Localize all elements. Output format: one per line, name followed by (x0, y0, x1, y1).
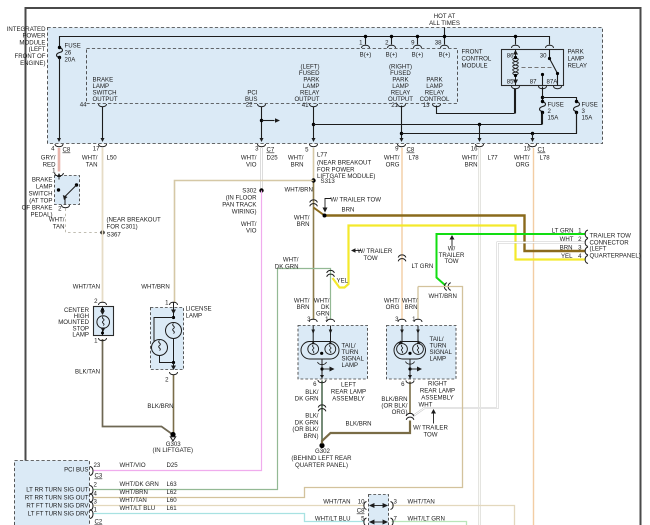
svg-text:L77: L77 (488, 155, 499, 162)
svg-text:WHT/BRN: WHT/BRN (120, 489, 148, 496)
wire WHT/BRN L62 right lamp pin 1 riser to module pin 4 (94, 287, 463, 498)
svg-text:BRN: BRN (291, 162, 304, 169)
connector TRAILER TOW pins 1-4 (585, 230, 588, 264)
svg-text:D25: D25 (167, 462, 179, 469)
svg-text:ORG: ORG (516, 162, 530, 169)
svg-text:LAMP: LAMP (430, 356, 447, 363)
ground G303 (170, 432, 175, 437)
svg-text:YEL: YEL (561, 253, 573, 260)
svg-text:QUARTERPANEL): QUARTERPANEL) (590, 252, 641, 259)
svg-text:3: 3 (94, 499, 98, 506)
relay switch contacts 30/87/87A (550, 50, 558, 86)
svg-text:PAN TRACK: PAN TRACK (222, 202, 256, 209)
label PARK LAMP RELAY CONTROL pin 13 (420, 77, 450, 104)
wire WHT/ORG L78 pin 9 C8 to right lamp pin 3, inline connector (401, 148, 403, 320)
svg-text:38: 38 (435, 40, 442, 47)
svg-text:WHT/TAN: WHT/TAN (120, 497, 147, 504)
svg-text:BRN: BRN (560, 245, 573, 252)
svg-text:WHT/TAN: WHT/TAN (73, 284, 100, 291)
svg-text:ENGINE): ENGINE) (20, 60, 45, 67)
wire BLK/TAN stop lamp pin 1 to ground G303 (103, 339, 173, 434)
labels wire colors GRY/RED WHT/TAN WHT/VIO WHT/BRN WHT/ORG (41, 155, 530, 169)
svg-text:FUSE: FUSE (65, 43, 81, 50)
wire LT GRN to trailer tow connector pin 1 (437, 234, 586, 286)
wire YEL to trailer tow connector pin 4 (333, 226, 586, 288)
labels RIGHT REAR LAMP ASSEMBLY TAIL/TURN SIGNAL LAMP (384, 298, 418, 324)
svg-text:2: 2 (94, 298, 98, 305)
svg-text:TAN: TAN (53, 224, 65, 231)
label BRAKE LAMP SWITCH (AT TOP OF BRAKE PEDAL) (22, 168, 65, 231)
svg-text:FOR C301): FOR C301) (107, 224, 138, 231)
svg-text:6: 6 (313, 381, 317, 388)
wire WHT trailer tow connector pin 2 to ground Y (413, 243, 586, 417)
svg-text:1: 1 (165, 300, 169, 307)
svg-text:1: 1 (52, 168, 56, 175)
svg-text:10: 10 (358, 499, 365, 506)
svg-text:LICENSE: LICENSE (186, 306, 212, 313)
svg-text:FRONT: FRONT (462, 49, 483, 56)
wire right fused park lamp relay output pin 21 to pin 9, junction (401, 106, 403, 141)
junction dots on B(+) bus (364, 35, 367, 38)
inline connector LT GRN to WHT/BRN (444, 283, 450, 291)
switch arm (75, 183, 78, 186)
svg-text:TOW: TOW (423, 432, 437, 439)
svg-text:WHT/DK GRN: WHT/DK GRN (120, 481, 159, 488)
module box with PCI BUS / turn signal outputs (15, 461, 90, 525)
svg-text:WIRING): WIRING) (232, 209, 257, 216)
wire WHT/TAN L50 pin 17 to stop lamp, splice S367 (102, 148, 104, 303)
svg-text:(IN FLOOR: (IN FLOOR (226, 195, 257, 202)
svg-text:C3: C3 (95, 473, 103, 480)
svg-text:RT FT TURN SIG DRV: RT FT TURN SIG DRV (26, 503, 89, 510)
wire GRY/RED pin 4 C8 to brake lamp switch (58, 148, 60, 172)
svg-text:BLK/BRN: BLK/BRN (346, 421, 372, 428)
W/ TRAILER TOW pointer at BRN junction (325, 199, 332, 210)
svg-text:OUTPUT: OUTPUT (93, 96, 118, 103)
relay bottom pin arcs (512, 86, 562, 89)
wire BLK/BRN right lamp pin 6 to ground G302, Y connector (409, 382, 411, 414)
svg-text:L63: L63 (167, 481, 178, 488)
inline connector on WHT/BRN below S313 (310, 200, 318, 206)
svg-text:86: 86 (507, 53, 514, 60)
wire WHT/BRN L77 pin 16 down (479, 148, 481, 525)
lamp LEFT REAR TAIL/TURN SIGNAL LAMP (298, 326, 368, 380)
label splice S302 (IN FLOOR PAN TRACK WIRING) (222, 188, 257, 235)
svg-text:WHT/: WHT/ (288, 155, 304, 162)
labels ground G302 (BEHIND LEFT REAR QUARTER PANEL) (292, 413, 318, 440)
svg-text:G302: G302 (315, 448, 331, 455)
svg-text:4: 4 (94, 491, 98, 498)
svg-text:15A: 15A (548, 115, 560, 122)
fuse FUSE 3 15A (574, 102, 580, 112)
svg-text:WHT/TAN: WHT/TAN (408, 499, 435, 506)
wire WHT/TAN L60 through connector C8 (94, 505, 365, 507)
wire brake lamp switch output pin 44 to pin 17 (102, 107, 104, 141)
relay PARK LAMP RELAY box (502, 50, 564, 86)
svg-text:WHT: WHT (419, 402, 433, 409)
ground G302 (319, 443, 324, 448)
svg-text:23: 23 (94, 462, 101, 469)
relay pin arrows (513, 50, 518, 55)
wire WHT/LT BLU L61 to connector C8 pin 5 (94, 514, 365, 522)
fuse FUSE 26 20A (57, 48, 63, 58)
svg-text:ORG: ORG (386, 304, 400, 311)
svg-text:2: 2 (94, 482, 98, 489)
svg-text:15A: 15A (582, 115, 594, 122)
svg-text:C7: C7 (267, 147, 275, 154)
svg-text:TAN: TAN (86, 162, 98, 169)
svg-text:W/ TRAILER: W/ TRAILER (413, 425, 448, 432)
svg-text:15: 15 (524, 146, 531, 153)
svg-text:16: 16 (471, 146, 478, 153)
svg-text:RT RR TURN SIG OUT: RT RR TURN SIG OUT (25, 495, 89, 502)
wire BRN to trailer tow connector pin 3 (325, 216, 586, 252)
wire WHT/BRN L77 pin 5, splice S313, to left lamp pin 3 (313, 148, 315, 181)
wire B(+) bus from fuse 26 to relay (60, 28, 550, 48)
wire WHT/ORG L78 pin 15 C1 down (533, 148, 535, 525)
svg-text:BLK/BRN: BLK/BRN (147, 403, 173, 410)
svg-text:WHT/: WHT/ (283, 257, 299, 264)
svg-text:B(+): B(+) (386, 52, 398, 59)
svg-text:WHT/VIO: WHT/VIO (120, 462, 146, 469)
svg-text:(NEAR BREAKOUT: (NEAR BREAKOUT (107, 217, 161, 224)
svg-text:DK GRN: DK GRN (275, 264, 299, 271)
svg-text:L77: L77 (317, 152, 328, 159)
svg-text:D25: D25 (267, 155, 279, 162)
svg-text:BRAKE: BRAKE (32, 177, 53, 184)
svg-text:GRY/: GRY/ (41, 155, 56, 162)
brake lamp switch box (55, 176, 80, 205)
svg-text:PCI BUS: PCI BUS (64, 467, 88, 474)
svg-text:LT GRN: LT GRN (412, 263, 434, 270)
svg-text:W/ TRAILER TOW: W/ TRAILER TOW (331, 197, 382, 204)
svg-text:HOT AT: HOT AT (434, 13, 456, 20)
svg-text:VIO: VIO (246, 162, 257, 169)
svg-text:1: 1 (94, 507, 98, 514)
wire WHT/BRN splice S313 branch to license lamp pin 1 (175, 181, 314, 303)
relay bottom wires (515, 89, 517, 114)
wire BLK/BRN license lamp pin 2 to ground G303 (173, 375, 175, 433)
svg-text:LT GRN: LT GRN (552, 228, 574, 235)
svg-text:87: 87 (530, 79, 537, 86)
wire left fused park lamp relay output pin 41 to pin 5, junction (313, 107, 315, 141)
label (LEFT) FUSED PARK LAMP RELAY OUTPUT pin 41 (294, 64, 320, 110)
svg-text:LT RR TURN SIG OUT: LT RR TURN SIG OUT (26, 487, 89, 494)
svg-text:WHT/: WHT/ (384, 155, 400, 162)
integrated power module outer box (48, 28, 603, 144)
svg-text:L60: L60 (167, 497, 178, 504)
svg-text:LAMP: LAMP (186, 313, 203, 320)
svg-text:WHT/LT GRN: WHT/LT GRN (408, 516, 445, 523)
svg-text:WHT/: WHT/ (514, 155, 530, 162)
pin connectors top of inner box (362, 45, 554, 48)
svg-text:44: 44 (80, 102, 87, 109)
svg-text:85: 85 (507, 79, 514, 86)
svg-text:(IN LIFTGATE): (IN LIFTGATE) (153, 447, 194, 454)
svg-text:L62: L62 (167, 489, 178, 496)
pin connectors 23/2/4/3/1 of bottom module (90, 467, 93, 519)
svg-text:2: 2 (165, 377, 169, 384)
wire WHT/TAN brake switch pin 2 to splice S367 (66, 209, 101, 233)
wire PCI bus pin 22 to pin 3, junction and arrow (261, 107, 263, 141)
svg-text:21: 21 (391, 102, 398, 109)
svg-text:WHT/LT BLU: WHT/LT BLU (120, 505, 156, 512)
wire WHT/VIO D25 splice S302 to pin 23 C3 (94, 191, 262, 471)
svg-text:LAMP: LAMP (36, 184, 53, 191)
wire fuse 3 output to pins 21/15, junction node (402, 114, 577, 134)
svg-text:26: 26 (65, 50, 72, 57)
svg-text:WHT: WHT (560, 236, 574, 243)
labels ground G303 (IN LIFTGATE) (153, 441, 194, 454)
svg-text:4: 4 (51, 146, 55, 153)
svg-text:BLK/TAN: BLK/TAN (75, 369, 100, 376)
labels bottom module PCI BUS / TURN SIG pins 23 C3 2 4 3 1 C2 (25, 467, 90, 518)
labels LEFT REAR LAMP ASSEMBLY TAIL/TURN SIGNAL LAMP (294, 298, 330, 324)
svg-text:WHT/: WHT/ (82, 155, 98, 162)
svg-text:87A: 87A (547, 79, 559, 86)
wire WHT/LT GRN from connector C8 pin 7 (392, 522, 467, 525)
wire fuse 2 output to pins 41/16, junction node (314, 114, 542, 125)
svg-text:WHT/LT BLU: WHT/LT BLU (315, 516, 351, 523)
svg-text:SWITCH: SWITCH (28, 191, 52, 198)
svg-text:QUARTER PANEL): QUARTER PANEL) (295, 462, 348, 469)
relay coil pins 86-85 (515, 50, 517, 86)
label HOT AT ALL TIMES (429, 13, 460, 27)
svg-text:TOW: TOW (444, 258, 458, 265)
svg-text:30: 30 (540, 53, 547, 60)
svg-text:ORG: ORG (386, 162, 400, 169)
svg-text:REAR LAMP: REAR LAMP (331, 389, 366, 396)
svg-text:S302: S302 (242, 188, 257, 195)
svg-text:41: 41 (302, 102, 309, 109)
svg-text:20A: 20A (65, 57, 77, 64)
svg-text:3: 3 (395, 316, 399, 323)
svg-text:LT FT TURN SIG DRV: LT FT TURN SIG DRV (28, 511, 90, 518)
svg-text:B(+): B(+) (439, 52, 451, 59)
svg-text:WHT/: WHT/ (462, 155, 478, 162)
inner module dashed box (87, 49, 458, 104)
svg-text:C8: C8 (357, 508, 365, 515)
svg-text:MODULE: MODULE (462, 63, 488, 70)
svg-text:WHT/TAN: WHT/TAN (323, 499, 350, 506)
svg-text:ALL TIMES: ALL TIMES (429, 20, 460, 27)
svg-text:YEL: YEL (337, 278, 349, 285)
svg-text:PARK: PARK (568, 49, 584, 56)
svg-text:(AT TOP: (AT TOP (29, 198, 52, 205)
svg-text:L61: L61 (167, 505, 178, 512)
wire WHT/DK GRN L63 pin 2 to left lamp pin 1 (94, 269, 331, 490)
svg-text:WHT/: WHT/ (241, 155, 257, 162)
svg-text:17: 17 (93, 146, 100, 153)
svg-text:ASSEMBLY: ASSEMBLY (421, 395, 453, 402)
svg-text:WHT/BRN: WHT/BRN (141, 284, 169, 291)
svg-text:CONTROL: CONTROL (462, 56, 492, 63)
svg-text:C1: C1 (538, 147, 546, 154)
svg-text:LAMP: LAMP (568, 56, 585, 63)
svg-text:BRN): BRN) (304, 433, 319, 440)
svg-text:TOW: TOW (364, 255, 378, 262)
svg-text:S367: S367 (107, 232, 122, 239)
svg-text:(BEHIND LEFT REAR: (BEHIND LEFT REAR (291, 455, 352, 462)
svg-text:BRN: BRN (465, 162, 478, 169)
wire park lamp relay control pin 13 to relay pin 85 (437, 89, 515, 114)
svg-text:WHT/: WHT/ (49, 217, 65, 224)
svg-text:BRN: BRN (297, 221, 310, 228)
svg-text:6: 6 (401, 381, 405, 388)
svg-text:RIGHT: RIGHT (428, 381, 447, 388)
svg-text:ORG): ORG) (392, 409, 408, 416)
svg-text:L78: L78 (540, 155, 551, 162)
svg-text:3: 3 (394, 499, 398, 506)
svg-text:B(+): B(+) (412, 52, 424, 59)
lamp CENTER HIGH MOUNTED STOP LAMP (94, 307, 114, 336)
svg-text:C8: C8 (407, 147, 415, 154)
svg-text:22: 22 (246, 102, 253, 109)
inline connector WHT/DK GRN riser with YEL tap (327, 270, 335, 276)
svg-text:BRN: BRN (342, 207, 355, 214)
svg-text:DK GRN: DK GRN (295, 396, 319, 403)
label (RIGHT) FUSED PARK LAMP RELAY OUTPUT pin 21 (388, 64, 413, 104)
svg-text:LAMP: LAMP (342, 362, 359, 369)
svg-text:REAR LAMP: REAR LAMP (420, 388, 455, 395)
label W/ TRAILER TOW at LT GRN with arrow (439, 246, 465, 266)
svg-text:1: 1 (94, 338, 98, 345)
svg-text:BRN: BRN (297, 304, 310, 311)
svg-text:13: 13 (423, 102, 430, 109)
labels TRAILER TOW CONNECTOR pins LT GRN 1 / WHT 2 / BRN 3 / YEL 4 (552, 228, 582, 261)
svg-text:B(+): B(+) (360, 52, 372, 59)
svg-text:OF BRAKE: OF BRAKE (22, 205, 53, 212)
wire BLK/DK GRN left lamp pin 6 to ground G302, inline connector (321, 381, 323, 444)
lamp RIGHT REAR TAIL/TURN SIGNAL LAMP (387, 326, 457, 380)
svg-text:S313: S313 (321, 178, 336, 185)
connector C8 pass-through (369, 495, 389, 525)
svg-text:L50: L50 (107, 155, 118, 162)
pin half circle connectors at y=143 (bottom edge of outer box) (55, 144, 537, 147)
label INTEGRATED POWER MODULE (7, 26, 46, 67)
svg-text:VIO: VIO (246, 228, 257, 235)
wire WHT/VIO D25 pin 3 C7 to splice S302 (260, 148, 262, 189)
svg-text:WHT/BRN: WHT/BRN (429, 293, 457, 300)
fuse FUSE 2 15A (540, 102, 546, 112)
lamp LICENSE LAMP (151, 308, 184, 370)
svg-text:L78: L78 (409, 155, 420, 162)
W/ TRAILER TOW pointer at WHT ground wire (433, 413, 435, 424)
svg-text:RELAY: RELAY (568, 63, 588, 70)
pin arrows at module bottom (57, 138, 535, 142)
svg-text:WHT/BRN: WHT/BRN (285, 187, 313, 194)
license lamp second bulb (154, 318, 174, 342)
svg-text:C2: C2 (95, 519, 103, 525)
pin connectors bottom of inner box (21,13,44,22,41) (99, 104, 441, 107)
svg-text:C8: C8 (63, 147, 71, 154)
svg-text:LEFT: LEFT (341, 382, 356, 389)
svg-text:LAMP: LAMP (72, 332, 89, 339)
wire diagonal WHT/BRN to BRN junction (314, 208, 325, 216)
svg-text:BRN: BRN (405, 304, 418, 311)
svg-text:ASSEMBLY: ASSEMBLY (332, 396, 364, 403)
svg-text:5: 5 (305, 147, 309, 154)
